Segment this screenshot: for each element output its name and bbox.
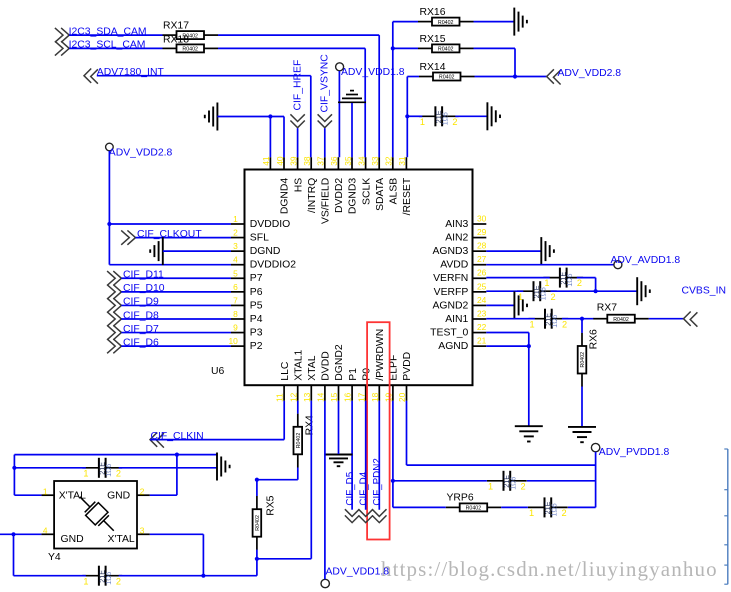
wire RX14 right to ADV_VDD2.8 xyxy=(475,76,547,78)
pin 33 SDATA (top) xyxy=(370,156,386,211)
pin 2 SFL (left) xyxy=(231,228,269,244)
crystal pin 4 GND xyxy=(41,526,54,536)
wire CIF_CLKIN to LLC pin 11 xyxy=(150,401,284,440)
ground symbol (DGND3 pin 35, inverted) xyxy=(338,91,366,103)
wire I2C3_SDA to RX17 xyxy=(69,34,162,36)
wire SDA net to SDATA pin 33 xyxy=(218,35,379,157)
svg-text:10: 10 xyxy=(228,336,238,346)
svg-text:ADV_VDD1.8: ADV_VDD1.8 xyxy=(341,67,405,78)
svg-text:7: 7 xyxy=(233,295,238,305)
svg-text:1: 1 xyxy=(83,468,88,478)
wire crystal pin3 row xyxy=(150,534,204,575)
pin 14 DVDD (bottom) xyxy=(316,351,332,402)
pin 4 DVDDIO2 (left) xyxy=(231,255,296,271)
junction RX15/RX14 rail xyxy=(513,74,517,78)
wire CIF_D8 to pin 8 xyxy=(121,318,231,320)
svg-text:CIF_D5: CIF_D5 xyxy=(345,471,356,505)
pin 37 VS/FIELD (top) xyxy=(316,156,332,224)
svg-text:DGND: DGND xyxy=(250,246,281,257)
watermark text xyxy=(381,557,718,581)
svg-text:1: 1 xyxy=(83,576,88,586)
svg-text:30: 30 xyxy=(477,213,487,223)
wire DVDD pin 14 to ADV_VDD1.8 xyxy=(324,401,326,580)
pin 18 /PWRDWN (bottom) xyxy=(370,329,386,402)
svg-text:24: 24 xyxy=(477,295,487,305)
table edge line at right xyxy=(724,449,728,584)
net label I2C3_SDA_CAM with sheet-entry chevron xyxy=(55,26,147,42)
svg-text:AIN1: AIN1 xyxy=(445,314,468,325)
junction top cap row xyxy=(12,466,16,470)
power port ADV_VDD1.8 (top) xyxy=(336,63,405,78)
svg-text:36: 36 xyxy=(329,156,339,166)
svg-text:P1: P1 xyxy=(348,368,359,381)
wire /RESET pin 31 riser xyxy=(406,116,408,157)
wire VERFN net xyxy=(486,278,595,292)
pin 29 AIN2 (right) xyxy=(445,227,486,244)
pin 31 /RESET (top) xyxy=(397,156,413,215)
pin 25 VERFP (right) xyxy=(434,281,487,298)
net label CIF_D6 with chevron xyxy=(107,337,159,353)
wire RX4 to RX5 xyxy=(257,468,298,497)
svg-text:RX5: RX5 xyxy=(265,495,276,515)
pin 20 PVDD (bottom) xyxy=(397,352,413,402)
svg-text:2: 2 xyxy=(233,228,238,238)
resistor YRP6 R0402 xyxy=(446,492,502,511)
pin 8 P4 (left) xyxy=(231,309,263,325)
svg-text:31: 31 xyxy=(397,156,407,166)
svg-text:2: 2 xyxy=(562,319,567,329)
net label CIF_D5 (vertical) with down chevron xyxy=(345,471,359,522)
pin 23 AIN1 (right) xyxy=(445,308,486,325)
svg-text:/RESET: /RESET xyxy=(402,177,413,215)
svg-text:RX14: RX14 xyxy=(420,62,446,73)
svg-text:AGND2: AGND2 xyxy=(432,300,468,311)
svg-text:DGND4: DGND4 xyxy=(280,178,291,215)
svg-text:SCLK: SCLK xyxy=(361,178,372,205)
svg-text:1Ω6: 1Ω6 xyxy=(567,273,574,286)
pin 24 AGND2 (right) xyxy=(432,295,486,312)
svg-text:41: 41 xyxy=(261,156,271,166)
svg-text:2: 2 xyxy=(577,278,582,288)
net label I2C3_SCL_CAM with sheet-entry chevron xyxy=(55,40,146,56)
resistor RX16 R0402 xyxy=(418,7,474,26)
svg-text:DVDD: DVDD xyxy=(321,351,332,380)
svg-text:39: 39 xyxy=(288,156,298,166)
svg-text:CIF_HREF: CIF_HREF xyxy=(293,60,304,111)
svg-text:32: 32 xyxy=(384,156,394,166)
wire CIF_D5 to pin 16 xyxy=(351,401,353,510)
wire /RESET cap row xyxy=(407,115,487,117)
svg-text:VERFN: VERFN xyxy=(433,273,468,284)
svg-text:6: 6 xyxy=(233,282,238,292)
capacitor on AIN1 pin 23 xyxy=(529,309,569,330)
svg-text:AGND3: AGND3 xyxy=(432,246,468,257)
wire DGND2 pin 15 to ground xyxy=(338,401,340,454)
svg-text:ADV_AVDD1.8: ADV_AVDD1.8 xyxy=(611,255,681,266)
svg-text:GND: GND xyxy=(61,534,84,545)
ground symbol at RX16 xyxy=(514,8,527,36)
capacitor load cap (top) xyxy=(82,458,122,479)
svg-text:P7: P7 xyxy=(250,273,263,284)
wire CIF_D6 to pin 10 xyxy=(121,345,231,347)
svg-text:XTAL1: XTAL1 xyxy=(293,349,304,380)
svg-text:11: 11 xyxy=(275,393,285,402)
svg-text:R0402: R0402 xyxy=(580,352,586,368)
svg-text:2: 2 xyxy=(140,486,145,496)
svg-text:33: 33 xyxy=(370,156,380,166)
resistor RX15 R0402 xyxy=(418,34,474,53)
power port ADV_VDD2.8 (left) xyxy=(106,143,173,158)
svg-text:XTAL: XTAL xyxy=(307,355,318,380)
wire RX5 bottom to XTAL net xyxy=(256,550,258,576)
junction ELPF xyxy=(391,479,395,483)
net label CIF_D10 with chevron xyxy=(107,283,165,299)
net label CIF_D4 (vertical) with down chevron xyxy=(359,471,373,522)
svg-text:1: 1 xyxy=(420,117,425,127)
svg-text:1Ω6: 1Ω6 xyxy=(552,315,559,328)
svg-text:TEST_0: TEST_0 xyxy=(430,327,468,338)
wire RX6 to ground xyxy=(581,319,583,427)
pin 16 P1 (bottom) xyxy=(343,368,359,402)
svg-text:/INTRQ: /INTRQ xyxy=(307,178,318,213)
svg-text:1: 1 xyxy=(530,319,535,329)
capacitor on VERFP pin 25 xyxy=(517,281,557,302)
junction pin2 riser xyxy=(175,453,179,457)
svg-text:2: 2 xyxy=(521,481,526,491)
svg-text:23: 23 xyxy=(477,308,487,318)
svg-text:1: 1 xyxy=(529,508,534,518)
svg-text:28: 28 xyxy=(477,241,487,251)
svg-text:DVDD2: DVDD2 xyxy=(334,178,345,213)
svg-text:RX15: RX15 xyxy=(420,34,446,45)
svg-text:DGND2: DGND2 xyxy=(334,344,345,381)
svg-text:1Ω6: 1Ω6 xyxy=(552,503,559,516)
svg-text:9: 9 xyxy=(233,323,238,333)
svg-text:VS/FIELD: VS/FIELD xyxy=(321,178,332,224)
capacitor after YRP6 xyxy=(528,497,568,518)
svg-text:40: 40 xyxy=(275,156,285,166)
wire ELPF to YRP6 xyxy=(393,506,446,508)
ground symbol at /RESET cap xyxy=(487,102,500,130)
svg-text:22: 22 xyxy=(477,322,487,332)
wire TEST_0 pin22 / AGND pin21 to ground xyxy=(486,333,529,427)
svg-text:26: 26 xyxy=(477,268,487,278)
pin 22 TEST_0 (right) xyxy=(430,322,486,339)
chevron CVBS_IN xyxy=(684,312,698,327)
svg-text:1: 1 xyxy=(488,481,493,491)
junction pin4 row xyxy=(11,532,15,536)
ground symbol (DGND4 pins 40/41) xyxy=(205,103,218,131)
svg-text:15: 15 xyxy=(329,392,339,402)
svg-text:Y4: Y4 xyxy=(48,552,61,563)
pin 12 XTAL1 (bottom) xyxy=(288,349,304,402)
svg-text:LLC: LLC xyxy=(280,361,291,381)
wire DGND pin 3 to ground xyxy=(163,250,231,252)
net label CIF_D8 with chevron xyxy=(107,310,159,326)
svg-text:RX4: RX4 xyxy=(304,415,315,435)
svg-text:1: 1 xyxy=(233,214,238,224)
svg-text:4: 4 xyxy=(43,526,48,536)
wire ADV_VDD1.8 to DVDD2 pin 36 xyxy=(338,71,340,157)
wire ADV7180_INT to /INTRQ pin 38 xyxy=(97,76,311,158)
wire CIF_CLKOUT to SFL pin 2 xyxy=(136,237,232,239)
svg-text:37: 37 xyxy=(316,156,326,166)
svg-text:1Ω6: 1Ω6 xyxy=(541,287,548,300)
ground symbol at VERFP xyxy=(637,277,650,305)
wire CIF_D10 to pin 6 xyxy=(121,291,231,293)
svg-text:SDATA: SDATA xyxy=(375,178,386,211)
pin 30 AIN3 (right) xyxy=(445,213,486,230)
svg-text:R0402: R0402 xyxy=(439,75,455,81)
svg-text:R0402: R0402 xyxy=(438,20,454,26)
pin 39 HS (top) xyxy=(288,156,304,192)
wire crystal pin2 to ground rail xyxy=(150,455,177,496)
wire CIF_D4 to pin 17 xyxy=(365,401,367,510)
wire CIF_VSYNC to VS/FIELD pin 37 xyxy=(324,128,326,157)
power port ADV_AVDD1.8 xyxy=(611,255,681,269)
pin 6 P6 (left) xyxy=(231,282,263,298)
svg-text:20: 20 xyxy=(397,392,407,402)
net label CIF_D11 with chevron xyxy=(107,270,164,286)
svg-text:https://blog.csdn.net/liuyingy: https://blog.csdn.net/liuyingyanhuo xyxy=(381,557,718,581)
svg-text:25: 25 xyxy=(477,281,487,291)
svg-text:RX18: RX18 xyxy=(163,34,189,45)
svg-text:27: 27 xyxy=(477,254,487,264)
svg-text:2: 2 xyxy=(562,508,567,518)
pin 11 LLC (bottom) xyxy=(275,361,291,402)
svg-text:VERFP: VERFP xyxy=(434,287,469,298)
resistor RX14 R0402 xyxy=(419,62,475,81)
svg-text:ADV_VDD2.8: ADV_VDD2.8 xyxy=(558,68,622,79)
ground symbol below RX6 xyxy=(568,427,596,442)
wire AGND2 pin 24 to ground xyxy=(486,304,514,306)
svg-text:CVBS_IN: CVBS_IN xyxy=(682,285,726,296)
resistor RX5 R0402 (vertical) xyxy=(253,495,277,550)
junction /RESET cap xyxy=(405,114,409,118)
wire AIN1 to RX7 xyxy=(486,318,594,320)
svg-text:3: 3 xyxy=(233,241,238,251)
crystal pin 2 GND xyxy=(137,486,150,496)
resistor RX18 R0402 xyxy=(163,34,219,52)
svg-text:2: 2 xyxy=(452,117,457,127)
crystal pin 1 X'TAL xyxy=(41,486,54,496)
pin 34 SCLK (top) xyxy=(356,156,372,205)
power net label ADV_VDD2.8 (right) with chevron xyxy=(547,68,622,85)
pin 19 ELPF (bottom) xyxy=(384,355,400,402)
svg-text:AIN2: AIN2 xyxy=(445,232,468,243)
wire XTAL pin 13 to branch xyxy=(257,401,311,559)
net label ADV7180_INT with chevron xyxy=(84,67,164,84)
svg-text:1: 1 xyxy=(43,486,48,496)
wire PVDD pin 20 to ADV_PVDD1.8 xyxy=(407,401,596,508)
svg-text:ADV_VDD2.8: ADV_VDD2.8 xyxy=(109,148,173,159)
pin 10 P2 (left) xyxy=(228,336,262,352)
wire ADV_VDD2.8 to DVDDIO pin1 and DVDDIO2 pin4 xyxy=(109,151,231,265)
svg-text:19: 19 xyxy=(384,392,394,402)
svg-text:2: 2 xyxy=(116,576,121,586)
junction ALSB/RX15 xyxy=(391,46,395,50)
wire RX16 right to ground xyxy=(474,21,515,23)
net label CIF_CLKIN with chevron xyxy=(150,431,204,448)
crystal pin 3 X'TAL xyxy=(137,526,150,536)
svg-text:AVDD: AVDD xyxy=(440,260,468,271)
svg-text:2: 2 xyxy=(551,292,556,302)
svg-text:35: 35 xyxy=(343,156,353,166)
wire XTAL1 pin 12 to RX4 xyxy=(297,401,299,414)
svg-text:R0402: R0402 xyxy=(466,506,482,512)
svg-text:R0402: R0402 xyxy=(296,433,302,449)
pin 40 DGND4 (top) xyxy=(275,156,291,214)
net label CIF_D7 with chevron xyxy=(107,324,159,340)
resistor RX17 R0402 xyxy=(163,21,219,40)
svg-text:16: 16 xyxy=(343,392,353,402)
resistor RX6 R0402 (vertical) xyxy=(578,329,600,387)
wire crystal pin4 row xyxy=(0,534,41,575)
capacitor on VERFN pin 26 xyxy=(543,268,583,289)
svg-text:R0402: R0402 xyxy=(438,47,454,53)
wire RX15 right down to VDD2.8 rail xyxy=(474,48,516,76)
pin 9 P3 (left) xyxy=(231,323,263,339)
power port ADV_VDD1.8 (bottom) xyxy=(321,566,389,587)
wire bottom XTAL row xyxy=(14,575,257,577)
net label CIF_D9 with chevron xyxy=(107,297,159,313)
pin 28 AGND3 (right) xyxy=(432,241,486,257)
crystal Y4 body xyxy=(48,481,137,563)
wire ELPF pin 19 riser xyxy=(392,401,394,508)
wire RX15 left to ALSB xyxy=(393,47,418,49)
pin 41 (top) xyxy=(261,156,271,169)
svg-text:SFL: SFL xyxy=(250,232,269,243)
pin 38 /INTRQ (top) xyxy=(302,156,318,213)
pin 36 DVDD2 (top) xyxy=(329,156,345,213)
svg-text:ADV_PVDD1.8: ADV_PVDD1.8 xyxy=(599,447,670,458)
wire CIF_D7 to pin 9 xyxy=(121,332,231,334)
svg-text:/PWRDWN: /PWRDWN xyxy=(375,329,386,381)
pin 5 P7 (left) xyxy=(231,268,263,284)
svg-text:RX16: RX16 xyxy=(420,7,446,18)
svg-text:R0402: R0402 xyxy=(613,317,629,323)
power port ADV_PVDD1.8 xyxy=(591,443,669,458)
svg-text:3: 3 xyxy=(140,526,145,536)
svg-text:RX7: RX7 xyxy=(597,303,617,314)
wire top cap row xyxy=(14,467,217,469)
resistor RX7 R0402 xyxy=(593,303,649,323)
junction pins41/40 ground wire xyxy=(268,114,272,118)
junction RX5/XTAL pin13 branch xyxy=(255,557,259,561)
svg-text:X'TAL: X'TAL xyxy=(107,534,134,545)
svg-text:DGND3: DGND3 xyxy=(348,178,359,215)
svg-text:DVDDIO2: DVDDIO2 xyxy=(250,260,296,271)
svg-text:12: 12 xyxy=(288,392,298,402)
svg-text:AIN3: AIN3 xyxy=(445,219,468,230)
svg-text:1: 1 xyxy=(544,278,549,288)
svg-text:29: 29 xyxy=(477,227,487,237)
svg-text:34: 34 xyxy=(356,156,366,166)
svg-text:1Ω6: 1Ω6 xyxy=(106,572,113,585)
ground symbol (DGND pin 3) xyxy=(150,237,163,265)
resistor RX4 R0402 (vertical) xyxy=(294,414,316,468)
net label CVBS_IN xyxy=(682,285,726,296)
svg-text:5: 5 xyxy=(233,268,238,278)
wire VERFP net xyxy=(486,290,637,292)
wire ALSB pin 32 riser xyxy=(392,22,394,158)
pin 13 XTAL (bottom) xyxy=(302,355,318,402)
junction TEST_0/AGND xyxy=(527,344,531,348)
ground symbol below AGND xyxy=(515,426,543,441)
svg-text:DVDDIO: DVDDIO xyxy=(250,219,290,230)
pin 32 ALSB (top) xyxy=(384,156,400,204)
crystal symbol inside Y4 xyxy=(73,490,120,537)
pin 15 DGND2 (bottom) xyxy=(329,344,345,402)
net label CIF_HREF with down chevron xyxy=(290,60,304,128)
ground symbol crystal area xyxy=(217,453,230,481)
pin 1 DVDDIO (left) xyxy=(231,214,290,230)
pin 21 AGND (right) xyxy=(438,336,486,353)
svg-text:P2: P2 xyxy=(250,341,263,352)
svg-text:38: 38 xyxy=(302,156,312,166)
svg-text:U6: U6 xyxy=(211,366,225,377)
pin 27 AVDD (right) xyxy=(440,254,486,271)
junction bottom row / pin3 branch xyxy=(201,574,205,578)
svg-text:ALSB: ALSB xyxy=(389,178,400,205)
svg-text:21: 21 xyxy=(477,336,487,346)
svg-text:P5: P5 xyxy=(250,300,263,311)
svg-text:ADV_VDD1.8: ADV_VDD1.8 xyxy=(326,566,390,577)
svg-text:R0402: R0402 xyxy=(255,515,261,531)
svg-text:YRP6: YRP6 xyxy=(447,492,474,503)
junction AIN1/RX6 xyxy=(580,317,584,321)
wire RX7 to CVBS_IN chevron xyxy=(649,318,684,320)
ground symbol at AGND3 xyxy=(541,237,554,265)
wire CIF_HREF to HS pin 39 xyxy=(297,128,299,157)
svg-text:18: 18 xyxy=(370,392,380,402)
ground symbol (DGND2 pin 15) xyxy=(325,455,353,467)
wire crystal pin1 loop xyxy=(14,455,217,496)
svg-text:RX17: RX17 xyxy=(163,21,189,32)
svg-text:AGND: AGND xyxy=(438,341,468,352)
pin 35 DGND3 (top) xyxy=(343,156,359,214)
capacitor load cap (bottom) xyxy=(82,566,122,587)
pin 3 DGND (left) xyxy=(231,241,280,257)
svg-text:1Ω6: 1Ω6 xyxy=(511,477,518,490)
svg-text:4: 4 xyxy=(233,255,238,265)
pin 7 P5 (left) xyxy=(231,295,263,311)
svg-text:CIF_PDN2: CIF_PDN2 xyxy=(372,458,383,505)
wire ELPF cap row xyxy=(393,480,596,482)
wire SCL net to SCLK pin 34 xyxy=(218,48,365,157)
junction DVDDIO rail xyxy=(107,222,111,226)
svg-text:HS: HS xyxy=(293,178,304,193)
wire ground to DGND3 pin 35 xyxy=(351,103,353,157)
ground symbol at AGND2 xyxy=(514,291,527,319)
svg-text:RX6: RX6 xyxy=(588,329,599,349)
wire CIF_D11 to pin 5 xyxy=(121,277,231,279)
svg-text:PVDD: PVDD xyxy=(402,352,413,381)
wire CIF_PDN2 to pin 18 xyxy=(378,401,380,510)
wire RX16 left to ALSB xyxy=(393,21,418,23)
svg-text:8: 8 xyxy=(233,309,238,319)
svg-text:P4: P4 xyxy=(250,314,263,325)
wire AGND3 pin 28 to ground xyxy=(486,250,541,252)
svg-text:R0402: R0402 xyxy=(182,47,198,53)
junction RX4 jog / RX5 xyxy=(255,478,259,482)
junction VERFN/VERFP xyxy=(594,289,598,293)
wire AVDD pin 27 to ADV_AVDD1.8 xyxy=(486,264,614,266)
wire pins 41,40 to ground xyxy=(217,117,284,158)
net label CIF_VSYNC with down chevron xyxy=(318,54,332,128)
capacitor on ELPF row xyxy=(487,471,527,492)
pin 17 P0 (bottom) xyxy=(356,368,372,402)
